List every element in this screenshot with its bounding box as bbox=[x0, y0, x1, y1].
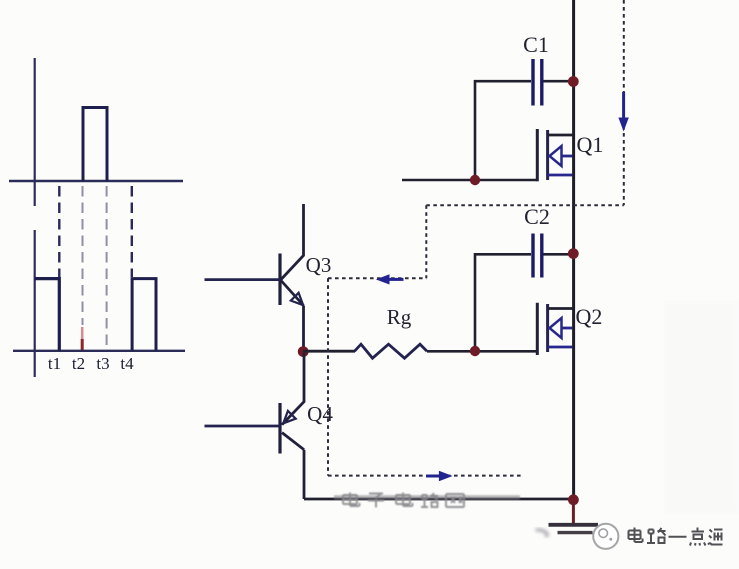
bottom wire to rail bbox=[304, 498, 572, 501]
ground stub bbox=[572, 500, 575, 524]
capacitor C2 left wire bbox=[475, 254, 531, 351]
power rail wire bbox=[572, 0, 575, 500]
mosfet Q1 bbox=[537, 129, 572, 181]
wire from node to resistor bbox=[303, 350, 355, 353]
node at Q1 gate and C1 leg bbox=[470, 175, 480, 185]
waveform lower vertical axis bbox=[34, 230, 36, 377]
capacitor C1 left wire bbox=[475, 81, 531, 180]
node at Q2 gate and C2 leg bbox=[470, 346, 480, 356]
waveform upper vertical axis bbox=[34, 58, 36, 206]
svg-text:Q3: Q3 bbox=[306, 253, 332, 277]
node at rail bottom bbox=[568, 494, 579, 505]
red marker at t2 bbox=[81, 327, 84, 340]
watermark text bbox=[343, 493, 464, 508]
watermark smear bbox=[334, 495, 520, 500]
dashed timing line t3 bbox=[106, 186, 108, 349]
transistor Q3 base wire bbox=[205, 278, 281, 281]
logo text bbox=[629, 528, 723, 546]
svg-text:Q1: Q1 bbox=[577, 132, 604, 157]
node at C2 and rail bbox=[568, 248, 579, 259]
node at driver output bbox=[298, 346, 309, 357]
dashed current path middle vertical bbox=[425, 205, 427, 278]
dashed current path from top bbox=[623, 0, 625, 205]
svg-text:t1: t1 bbox=[48, 354, 61, 373]
svg-text:Rg: Rg bbox=[387, 305, 412, 329]
dashed timing line t2 bbox=[82, 186, 84, 325]
dashed current path upper horizontal bbox=[426, 204, 624, 206]
background tone patch bbox=[664, 300, 739, 515]
transistor Q4 base wire bbox=[205, 425, 281, 428]
svg-text:t3: t3 bbox=[96, 354, 109, 373]
capacitor C2 plates bbox=[533, 234, 542, 278]
mosfet Q2 gate wire bbox=[427, 350, 537, 353]
logo icon bbox=[593, 524, 618, 549]
svg-text:t4: t4 bbox=[120, 354, 134, 373]
dashed current path middle horizontal bbox=[328, 277, 426, 279]
waveform upper horizontal axis bbox=[9, 180, 183, 182]
mosfet Q1 gate wire bbox=[402, 179, 537, 182]
dashed timing line t1 bbox=[58, 186, 60, 277]
dashed current path bottom horizontal bbox=[328, 475, 522, 477]
waveform lower right pulse bbox=[132, 279, 156, 351]
arrow down bbox=[618, 92, 628, 132]
capacitor C2 right wire bbox=[544, 253, 573, 256]
red marker at t2 lower bbox=[81, 339, 84, 352]
resistor Rg bbox=[355, 344, 428, 358]
capacitor C1 plates bbox=[533, 59, 542, 106]
transistor Q4 bbox=[280, 353, 304, 499]
svg-text:Q2: Q2 bbox=[576, 304, 603, 329]
svg-text:C2: C2 bbox=[524, 204, 550, 229]
svg-text:Q4: Q4 bbox=[307, 402, 333, 426]
arrow right bbox=[426, 471, 453, 481]
dashed current path left vertical bbox=[327, 278, 329, 475]
node at C1 and rail bbox=[568, 76, 579, 87]
svg-text:C1: C1 bbox=[523, 32, 549, 57]
capacitor C1 right wire bbox=[544, 80, 573, 83]
waveform lower horizontal axis bbox=[13, 350, 185, 352]
mosfet Q2 bbox=[537, 303, 572, 355]
waveform upper pulse bbox=[83, 108, 107, 182]
svg-text:t2: t2 bbox=[72, 354, 85, 373]
arrow left bbox=[376, 274, 404, 284]
waveform lower left pulse bbox=[35, 279, 60, 351]
dashed timing line t4 bbox=[131, 186, 133, 277]
ground bbox=[536, 525, 598, 540]
transistor Q3 bbox=[280, 204, 304, 352]
